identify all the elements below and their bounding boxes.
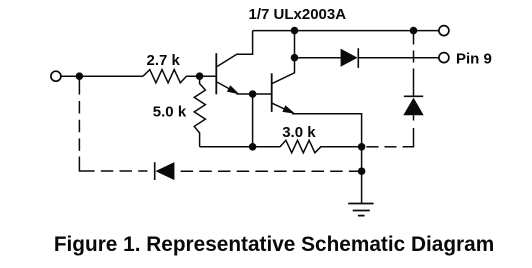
svg-text:2.7 k: 2.7 k — [147, 52, 181, 69]
svg-text:Figure 1. Representative Schem: Figure 1. Representative Schematic Diagr… — [54, 233, 494, 256]
svg-text:3.0 k: 3.0 k — [282, 124, 316, 141]
svg-text:5.0 k: 5.0 k — [153, 104, 187, 121]
svg-text:Pin 9: Pin 9 — [456, 50, 492, 67]
svg-text:1/7 ULx2003A: 1/7 ULx2003A — [249, 6, 347, 23]
